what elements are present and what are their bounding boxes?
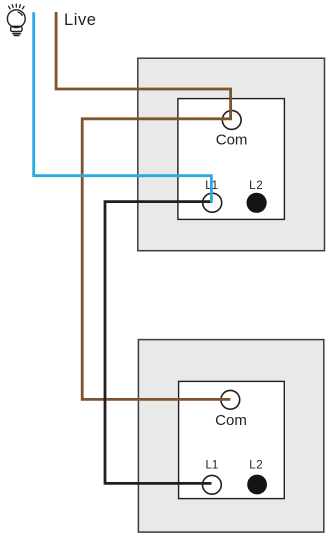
terminal Com (SW1)	[222, 111, 241, 130]
svg-text:L2: L2	[249, 180, 263, 192]
switch plate SW1 (top outer grey plate)	[138, 58, 325, 251]
bulb base thread line 1	[13, 33, 21, 35]
svg-text:Live: Live	[64, 11, 96, 29]
svg-text:Com: Com	[216, 131, 248, 148]
terminal L1 (SW1)	[203, 193, 222, 212]
lamp icon (bulb)	[7, 4, 25, 35]
terminal L1 (SW2)	[203, 475, 222, 494]
svg-text:Com: Com	[215, 412, 247, 429]
bulb base cap	[11, 26, 22, 31]
wire blue: lamp down and across to SW1 L1	[34, 12, 212, 203]
switch SW2 inner module	[179, 381, 285, 498]
bulb glass	[7, 10, 25, 28]
wire brown live feed: Live down, across to SW1 Com, back across and down to SW2 Com	[56, 12, 231, 399]
svg-text:L2: L2	[249, 460, 263, 472]
bulb highlight arc	[18, 12, 22, 15]
switch plate SW2 (bottom outer grey plate)	[138, 340, 323, 532]
terminal L2 (SW1, unused, filled)	[247, 193, 267, 213]
wire black: SW1 L1 across and down to SW2 L1	[105, 202, 212, 484]
terminal L2 (SW2, unused, filled)	[247, 475, 267, 495]
svg-text:L1: L1	[206, 460, 219, 472]
switch SW1 inner module	[178, 99, 285, 220]
bulb base thread line 2	[14, 35, 19, 37]
terminal Com (SW2)	[221, 390, 240, 409]
bulb rays	[9, 4, 24, 9]
